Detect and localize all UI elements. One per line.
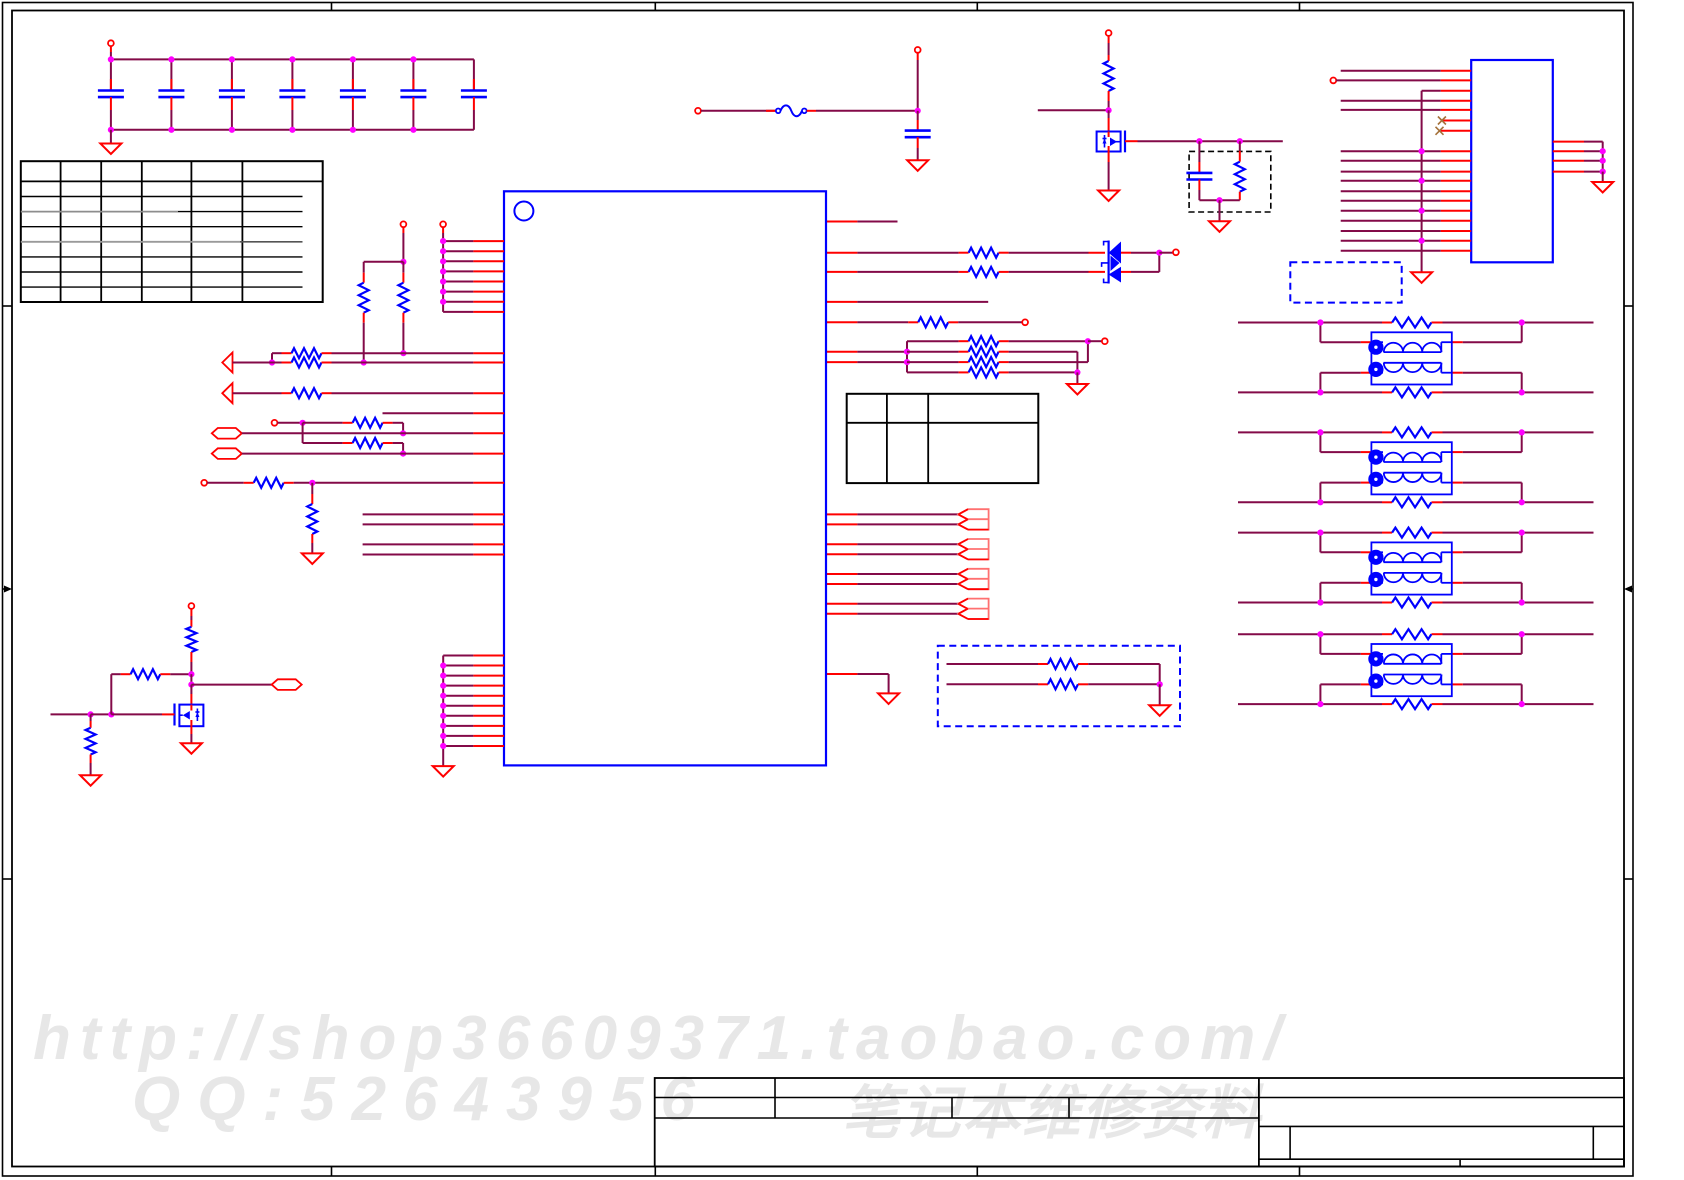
- resistor R14: [826, 317, 1022, 327]
- power port P4: [1106, 30, 1112, 55]
- transformer T1: [1361, 332, 1463, 384]
- wire: [1463, 530, 1525, 553]
- wire: [1463, 684, 1525, 707]
- wire: [363, 543, 504, 545]
- off-page port: [272, 679, 302, 690]
- resistor R6: [300, 418, 407, 437]
- wire: [363, 513, 504, 515]
- resistor R2: [359, 262, 369, 366]
- wire bottom row: [1238, 703, 1594, 705]
- wire: [1463, 483, 1525, 506]
- wire: [1317, 429, 1361, 452]
- power port P1: [108, 40, 114, 59]
- wire pair 1: [826, 514, 958, 524]
- termination dashed box: [938, 646, 1180, 727]
- resistor R15: [907, 336, 1088, 346]
- connector J1: [1471, 60, 1553, 262]
- junction: [309, 480, 315, 486]
- wire gate row: [51, 711, 175, 717]
- resistor RT1a: [1392, 318, 1431, 328]
- ground: [80, 775, 101, 786]
- wire bottom row: [1238, 501, 1594, 503]
- wire bus: [440, 656, 504, 767]
- wire top row: [1238, 532, 1594, 534]
- resistor RT2b: [1392, 497, 1431, 507]
- wire: [1317, 373, 1361, 396]
- wire: [242, 432, 504, 434]
- port: [1022, 319, 1028, 325]
- port pair 4: [958, 599, 988, 619]
- wire: [1463, 319, 1525, 342]
- wire: [1317, 631, 1361, 654]
- port pair 3: [958, 569, 988, 589]
- ground: [1411, 272, 1432, 283]
- resistor R17: [907, 357, 1088, 367]
- capacitor C1: [98, 59, 124, 129]
- wire: [1131, 250, 1173, 272]
- wire bus: [440, 238, 504, 312]
- resistor R19: [947, 659, 1160, 684]
- wire: [1317, 583, 1361, 606]
- capacitor C7: [461, 59, 487, 129]
- resistor R13: [826, 267, 1089, 277]
- wire: [190, 685, 192, 705]
- wire pair 2: [826, 544, 958, 554]
- wire top bus: [110, 58, 474, 60]
- port: [440, 221, 446, 241]
- resistor RT3b: [1392, 598, 1431, 608]
- wire: [1463, 429, 1525, 452]
- power port P3: [915, 47, 921, 111]
- capacitor C9: [1186, 141, 1212, 200]
- connector pins right: [1553, 142, 1606, 182]
- note table: [847, 394, 1039, 483]
- capacitor C2: [158, 59, 184, 129]
- junction: [1196, 138, 1243, 144]
- wire: [1317, 319, 1361, 342]
- wire: [1463, 583, 1525, 606]
- port pair 1: [958, 509, 988, 529]
- ground: [1209, 221, 1230, 232]
- wire top row: [1238, 431, 1594, 433]
- off-page port: [212, 428, 242, 439]
- resistor RT4a: [1392, 629, 1431, 639]
- wire bottom row: [1238, 391, 1594, 393]
- wire: [826, 351, 907, 353]
- wire: [826, 674, 889, 693]
- wire: [269, 353, 275, 365]
- resistor RT3a: [1392, 528, 1431, 538]
- transistor Q2: [175, 704, 204, 727]
- resistor R20: [947, 679, 1160, 689]
- port: [1330, 78, 1440, 84]
- ground: [181, 726, 202, 754]
- ground: [1149, 705, 1170, 716]
- wire gate: [1125, 140, 1283, 142]
- NC marks: [1436, 117, 1446, 135]
- revision table: [21, 161, 323, 302]
- wire: [191, 684, 271, 686]
- resistor R23: [186, 620, 196, 674]
- junction: [364, 259, 407, 265]
- ground: [1098, 151, 1119, 201]
- wire: [363, 554, 504, 556]
- resistor RT4b: [1392, 699, 1431, 709]
- port: [1173, 249, 1179, 255]
- wire: [826, 361, 907, 363]
- capacitor C6: [400, 59, 426, 129]
- junction: [1157, 681, 1163, 705]
- wire: [1199, 197, 1239, 221]
- capacitor C5: [340, 59, 366, 129]
- wire: [1317, 684, 1361, 707]
- transformer T2: [1361, 442, 1463, 494]
- port: [1102, 338, 1108, 344]
- power port P2: [695, 108, 701, 114]
- wire: [1038, 109, 1109, 111]
- ground: [878, 693, 899, 704]
- power port P8: [189, 603, 195, 620]
- wire: [1463, 631, 1525, 654]
- resistor R16: [907, 347, 1077, 373]
- wire: [363, 523, 504, 525]
- ground: [433, 766, 454, 777]
- wire bus: [904, 341, 910, 372]
- port pair 2: [958, 539, 988, 559]
- wire: [701, 110, 776, 112]
- wire bottom bus: [110, 129, 474, 131]
- resistor R3: [272, 348, 504, 358]
- off-page port: [212, 448, 242, 459]
- wire top row: [1238, 322, 1594, 324]
- wire: [1085, 338, 1102, 362]
- title block: [655, 1078, 1624, 1167]
- port: [401, 221, 407, 261]
- wire pair 3: [826, 574, 958, 584]
- wire pair 4: [826, 604, 958, 614]
- IC U1: [504, 191, 826, 765]
- junction: [1106, 107, 1112, 113]
- transformer T3: [1361, 542, 1463, 594]
- TVS diode D1: [1089, 241, 1132, 284]
- port: [201, 480, 243, 486]
- resistor R10: [1104, 55, 1114, 110]
- ground: [907, 160, 928, 171]
- capacitor C8: [905, 111, 931, 161]
- transformer T4: [1361, 644, 1463, 696]
- wire top row: [1238, 633, 1594, 635]
- wire: [807, 110, 918, 112]
- resistor R7: [303, 423, 407, 457]
- junction: [188, 671, 194, 688]
- wire: [826, 221, 898, 223]
- wire bus: [1419, 91, 1441, 273]
- fuse F1: [776, 105, 807, 116]
- resistor R4: [233, 358, 505, 368]
- resistor R22: [86, 714, 96, 775]
- resistor RT2a: [1392, 427, 1431, 437]
- wire: [1317, 483, 1361, 506]
- capacitor C3: [219, 59, 245, 129]
- signal flag: [222, 383, 232, 403]
- resistor R8: [244, 478, 504, 488]
- port: [272, 420, 303, 426]
- wire: [383, 412, 505, 414]
- dashed box: [1290, 262, 1401, 302]
- resistor R9: [307, 483, 317, 554]
- junction: [1074, 369, 1080, 384]
- wire: [1463, 373, 1525, 396]
- ground: [1067, 384, 1088, 395]
- wire bottom row: [1238, 602, 1594, 604]
- resistor R18: [907, 367, 1077, 377]
- ground: [1592, 182, 1613, 193]
- wires to connector: [1341, 71, 1441, 251]
- junction dots cap bank: [108, 56, 417, 133]
- resistor R1: [398, 262, 408, 357]
- ground: [302, 553, 323, 564]
- wire: [1108, 110, 1110, 131]
- resistor R11: [1235, 141, 1245, 200]
- junction: [915, 108, 921, 114]
- wire: [110, 674, 112, 714]
- snubber dashed box: [1189, 151, 1271, 212]
- resistor R21: [111, 669, 191, 679]
- wire: [1317, 530, 1361, 553]
- wire: [242, 453, 504, 455]
- signal flag: [222, 353, 232, 373]
- wire: [826, 301, 988, 303]
- resistor R12: [826, 248, 1089, 258]
- connector pins left: [1441, 71, 1472, 251]
- transistor Q1: [1097, 131, 1125, 153]
- resistor R5: [233, 388, 505, 398]
- ground: [100, 130, 121, 154]
- capacitor C4: [279, 59, 305, 129]
- resistor RT1b: [1392, 387, 1431, 397]
